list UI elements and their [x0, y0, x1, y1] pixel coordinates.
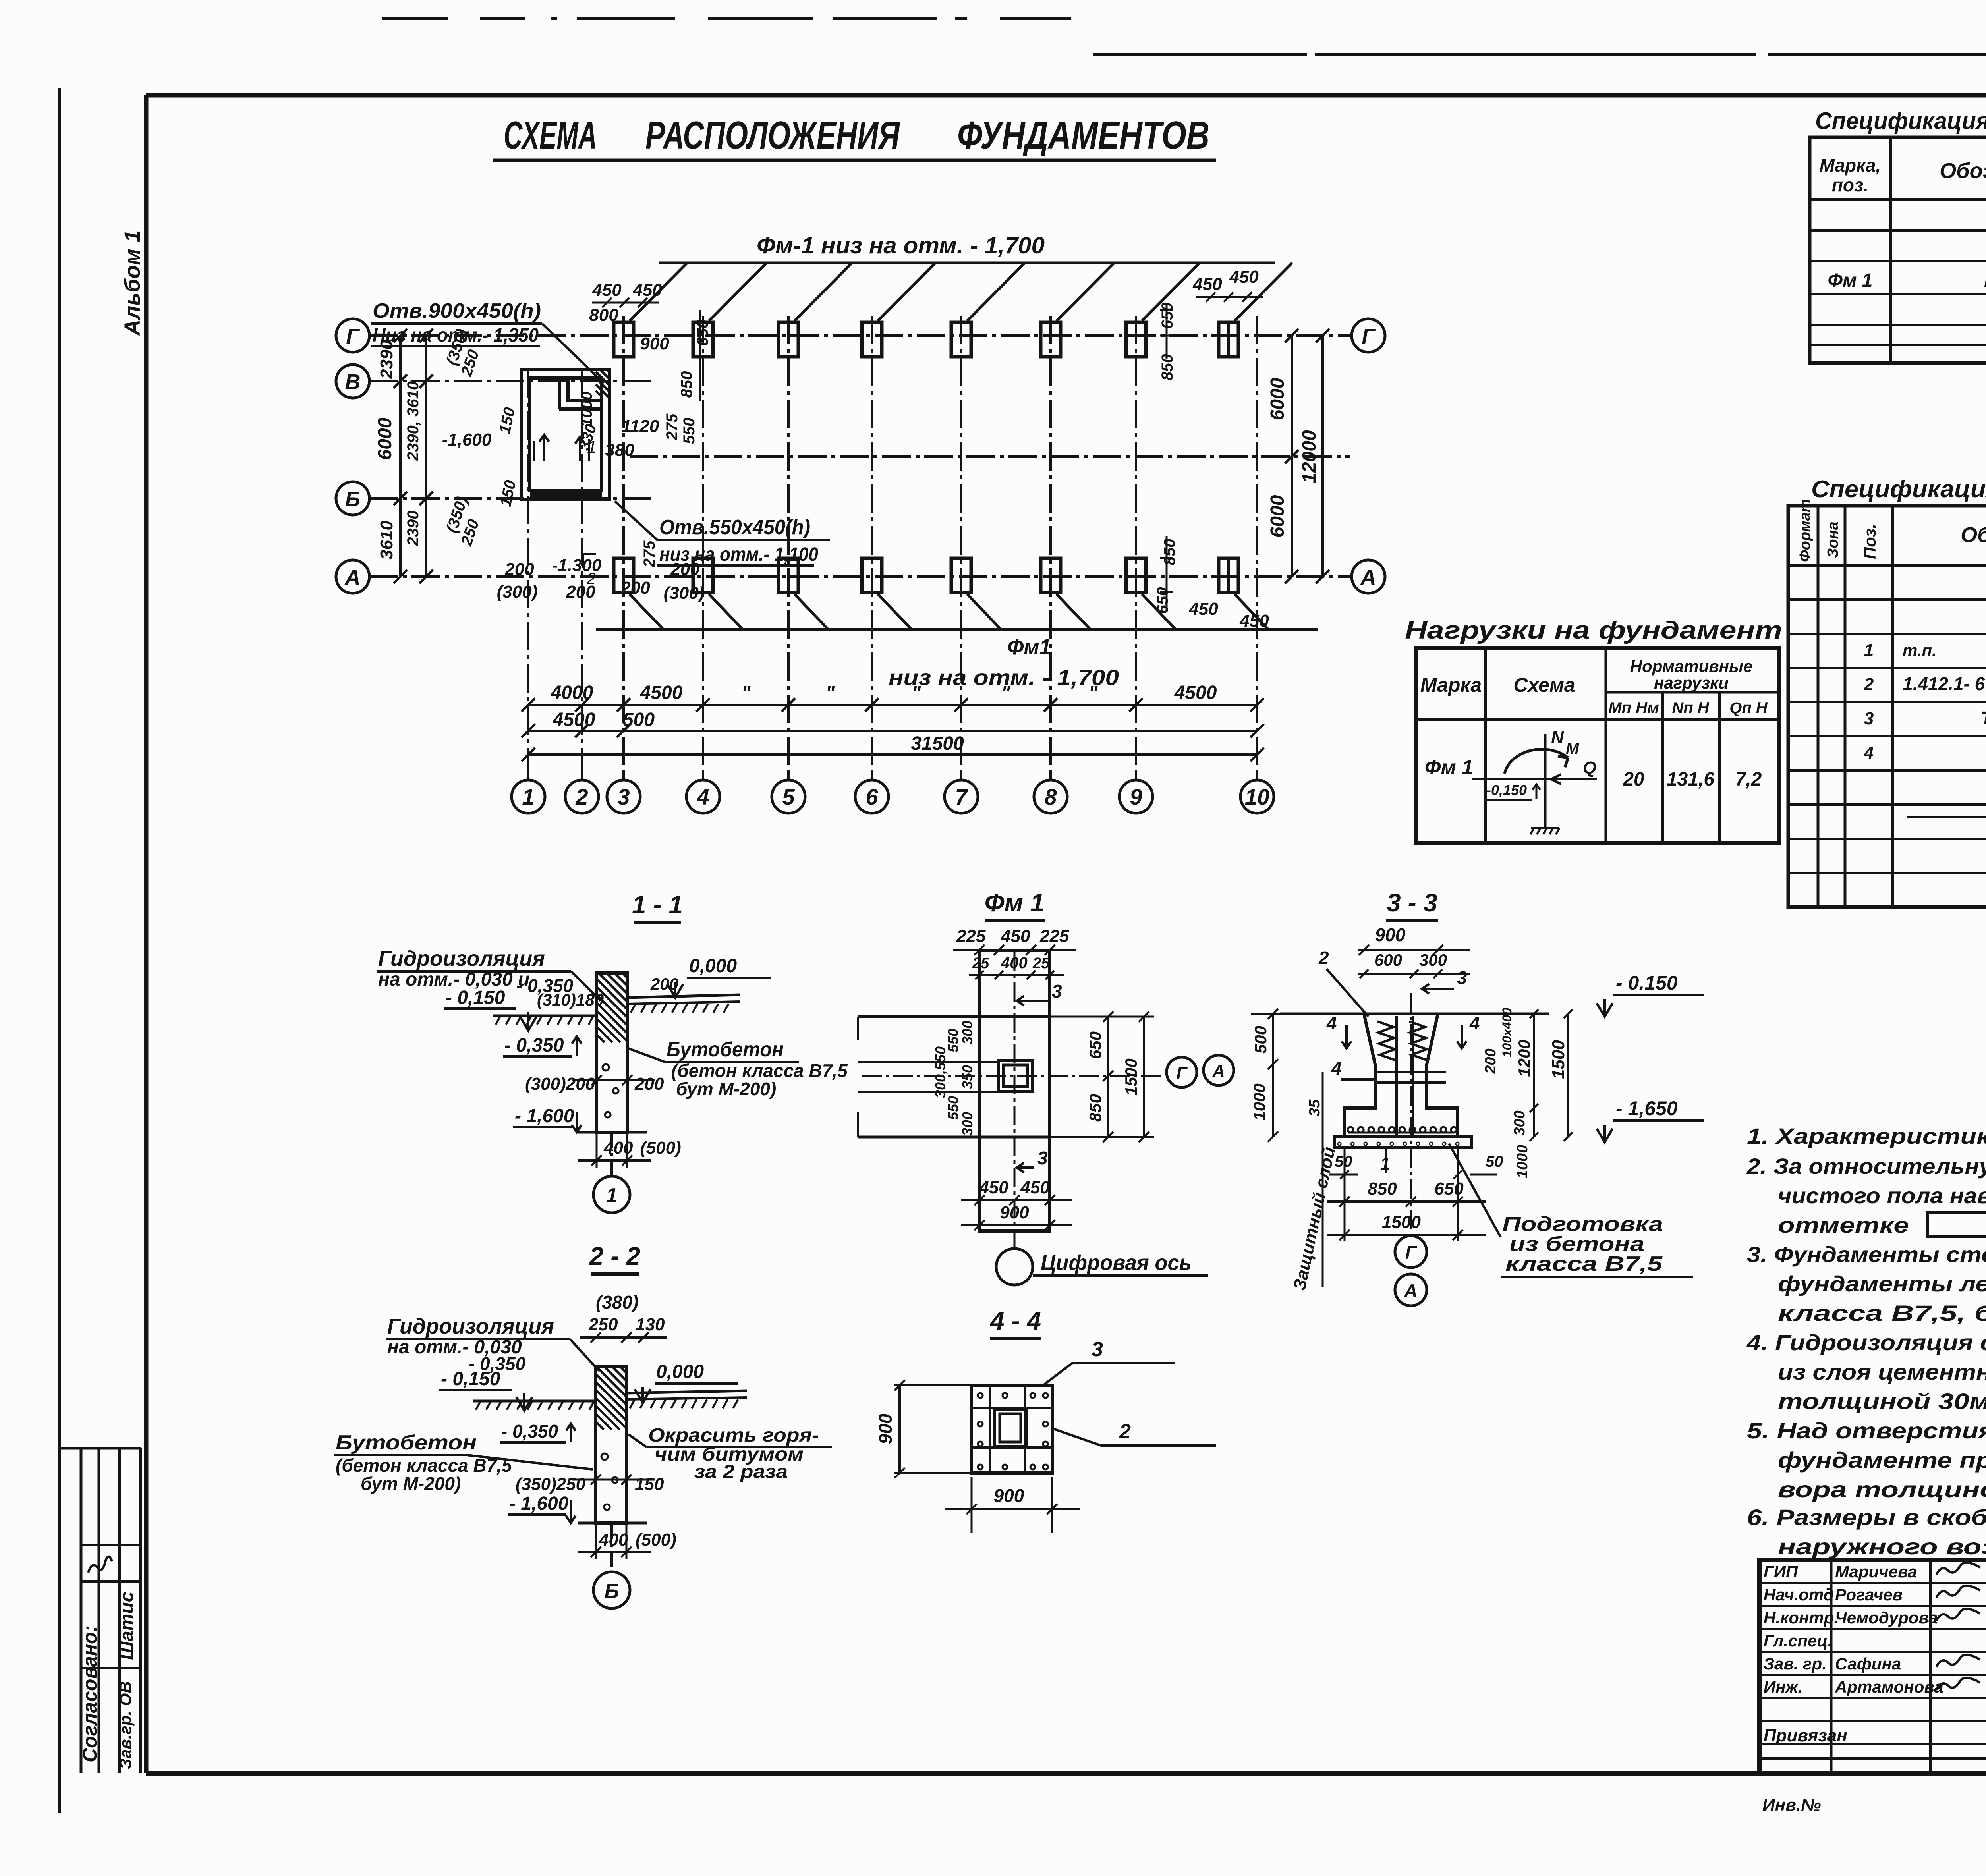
svg-text:450: 450	[979, 1178, 1008, 1197]
svg-text:фундаменты ленточные - бутобе: фундаменты ленточные - бутобетонные ( бе…	[1778, 1271, 1986, 1296]
svg-text:3: 3	[1092, 1338, 1103, 1361]
svg-text:10: 10	[1245, 784, 1269, 809]
svg-text:Инж.: Инж.	[1764, 1677, 1802, 1696]
detail Фм1 digital axis circle	[996, 1249, 1033, 1285]
svg-text:Б: Б	[605, 1580, 619, 1603]
detail Фм1 horizontal strip lines	[858, 1015, 979, 1018]
svg-text:В: В	[345, 370, 361, 394]
opening detail in building top	[558, 378, 561, 409]
svg-text:- 0,150: - 0,150	[441, 1368, 500, 1390]
svg-text:150: 150	[496, 406, 519, 435]
svg-text:3610: 3610	[377, 521, 396, 560]
svg-text:2: 2	[575, 784, 588, 809]
svg-text:130: 130	[636, 1315, 665, 1334]
svg-text:КЖ- 2: КЖ- 2	[1984, 270, 1986, 291]
stair arrows in building	[534, 435, 549, 461]
svg-text:2390: 2390	[404, 511, 422, 546]
section 3-3 mid band bars	[1375, 1071, 1446, 1073]
svg-text:225: 225	[1039, 926, 1069, 946]
svg-text:1: 1	[1380, 1154, 1390, 1173]
svg-text:То же: То же	[1981, 708, 1986, 728]
svg-text:Б: Б	[345, 487, 360, 511]
svg-text:т.п.: т.п.	[1903, 641, 1937, 660]
svg-text:3: 3	[1037, 1148, 1048, 1168]
svg-text:5: 5	[782, 784, 795, 809]
svg-text:20: 20	[1623, 769, 1644, 790]
svg-text:Нагрузки на фундамент: Нагрузки на фундамент	[1405, 617, 1782, 644]
svg-text:Зона: Зона	[1825, 521, 1841, 558]
left dim line 1	[399, 336, 402, 577]
svg-text:300,550: 300,550	[932, 1046, 949, 1098]
svg-text:850: 850	[678, 371, 695, 398]
svg-text:4 - 4: 4 - 4	[989, 1307, 1041, 1335]
section 3-3 center axis	[1410, 993, 1412, 1230]
axis Б horizontal	[369, 497, 653, 500]
svg-text:200: 200	[670, 560, 700, 579]
svg-text:200: 200	[634, 1074, 664, 1094]
svg-text:25: 25	[1032, 955, 1050, 972]
svg-text:Артамонова: Артамонова	[1835, 1677, 1943, 1696]
right dim line 12000	[1321, 336, 1324, 577]
svg-text:380: 380	[605, 440, 634, 460]
svg-text:Гидроизоляция: Гидроизоляция	[378, 947, 545, 971]
svg-text:из слоя цементного раствора: из слоя цементного раствора состава 1: 2	[1778, 1359, 1986, 1384]
section 3-3 left dims	[1272, 1014, 1274, 1137]
svg-text:600: 600	[1374, 951, 1402, 969]
svg-text:Поз.: Поз.	[1860, 524, 1879, 559]
svg-text:Привязан: Привязан	[1764, 1726, 1847, 1745]
loads sketch moment arc	[1505, 749, 1568, 774]
svg-text:300: 300	[959, 1021, 976, 1044]
section 3-3 stirrup zigzag left	[1377, 1021, 1396, 1060]
svg-text:Марка,: Марка,	[1820, 155, 1881, 176]
svg-text:Сафина: Сафина	[1835, 1654, 1901, 1673]
svg-text:": "	[826, 682, 835, 703]
svg-text:900: 900	[875, 1413, 896, 1444]
section 2-2 axis circle Б	[610, 1523, 613, 1572]
scan fold line above frame right	[1093, 53, 1307, 56]
svg-text:1200: 1200	[1515, 1040, 1534, 1077]
svg-text:Qп Н: Qп Н	[1729, 699, 1768, 717]
section 4-4 rebar dots	[978, 1393, 1048, 1469]
svg-text:200: 200	[504, 560, 534, 579]
dimension line row 3 (31500 overall)	[528, 753, 1257, 756]
svg-text:4000: 4000	[551, 682, 593, 703]
svg-text:- 0,350: - 0,350	[504, 1035, 564, 1056]
svg-text:1: 1	[522, 784, 534, 809]
svg-text:2: 2	[1864, 675, 1874, 694]
svg-text:Nп Н: Nп Н	[1672, 699, 1709, 717]
section 3-3 podgotovka layer	[1335, 1137, 1472, 1148]
svg-text:200: 200	[620, 578, 650, 598]
dimension line row 1 (4000/4500...)	[528, 704, 1257, 706]
svg-text:N: N	[1551, 728, 1564, 747]
svg-text:А: А	[1360, 566, 1376, 589]
svg-text:(300): (300)	[497, 582, 538, 602]
svg-text:-1.300: -1.300	[552, 556, 602, 575]
svg-text:450: 450	[1001, 926, 1030, 946]
section 2-2 ground	[473, 1400, 596, 1403]
svg-text:4500: 4500	[640, 682, 683, 703]
svg-text:Фм 1: Фм 1	[1828, 270, 1872, 291]
column axes vertical	[527, 369, 529, 770]
svg-text:Фм-1 низ на отм. - 1,700: Фм-1 низ на отм. - 1,700	[757, 233, 1045, 259]
svg-text:Защитный слой: Защитный слой	[1290, 1145, 1339, 1292]
section 1-1 wall	[597, 973, 627, 1132]
svg-text:350: 350	[959, 1065, 976, 1089]
axis В horizontal	[369, 380, 653, 382]
svg-text:(300)200: (300)200	[525, 1074, 595, 1094]
svg-text:500: 500	[1251, 1026, 1270, 1054]
svg-text:4500: 4500	[1174, 682, 1217, 703]
column number circles	[512, 780, 545, 813]
svg-text:бут М-200): бут М-200)	[676, 1079, 776, 1099]
svg-text:500: 500	[623, 709, 655, 730]
svg-text:6: 6	[865, 784, 878, 809]
approval table bottom-left	[60, 1447, 141, 1450]
svg-text:3: 3	[617, 784, 630, 809]
loads sketch ground	[1531, 827, 1559, 829]
svg-text:Н.контр.: Н.контр.	[1764, 1608, 1839, 1627]
svg-text:4: 4	[1469, 1013, 1480, 1033]
svg-text:M: M	[1566, 740, 1580, 757]
svg-text:": "	[1001, 682, 1011, 703]
svg-text:Согласовано:: Согласовано:	[79, 1625, 101, 1762]
svg-text:нагрузки: нагрузки	[1654, 674, 1729, 692]
svg-text:3: 3	[1052, 981, 1062, 1002]
svg-text:450: 450	[632, 280, 662, 300]
foundation marks Фм1 on axis Г	[614, 322, 634, 357]
detail Фм1 center hole double square	[998, 1060, 1033, 1091]
svg-text:4. Гидроизоляция стен на отм: 4. Гидроизоляция стен на отм.- 0,030 и -…	[1746, 1330, 1986, 1355]
svg-text:650: 650	[694, 320, 711, 346]
svg-text:(500): (500)	[636, 1530, 676, 1550]
svg-text:300: 300	[959, 1112, 976, 1136]
svg-text:1500: 1500	[1382, 1212, 1421, 1232]
svg-text:Бутобетон: Бутобетон	[667, 1038, 784, 1061]
svg-text:4500: 4500	[553, 709, 595, 730]
svg-text:": "	[912, 682, 922, 703]
svg-text:(бетон класса В7,5: (бетон класса В7,5	[336, 1455, 512, 1476]
loads table frame	[1416, 648, 1779, 843]
svg-text:Зав.гр. ОВ: Зав.гр. ОВ	[116, 1681, 135, 1769]
svg-text:450: 450	[1239, 611, 1269, 631]
detail Фм1 circles Г А	[1167, 1057, 1197, 1087]
svg-text:наружного воздуха - 40°С.: наружного воздуха - 40°С.	[1778, 1534, 1986, 1559]
svg-text:Фм 1: Фм 1	[985, 888, 1045, 917]
svg-text:4: 4	[1864, 743, 1874, 762]
svg-text:150: 150	[635, 1475, 664, 1494]
svg-text:Фм 1: Фм 1	[1425, 756, 1473, 779]
loads sketch Q arrow	[1472, 778, 1597, 780]
svg-text:поз.: поз.	[1832, 175, 1868, 195]
svg-text:3 - 3: 3 - 3	[1387, 888, 1437, 917]
svg-text:550: 550	[680, 418, 698, 444]
svg-text:100х400: 100х400	[1500, 1008, 1514, 1058]
svg-text:- 1,600: - 1,600	[515, 1106, 574, 1127]
svg-text:2: 2	[1119, 1420, 1131, 1443]
svg-text:12000: 12000	[1299, 430, 1320, 483]
small dim ticks near squares	[602, 298, 612, 307]
svg-text:Обозначение: Обозначение	[1940, 159, 1986, 183]
left dim line 2	[425, 336, 427, 577]
thick bottom wall	[530, 492, 602, 498]
svg-text:Схема: Схема	[1513, 674, 1575, 696]
svg-text:Нормативные: Нормативные	[1630, 657, 1752, 676]
svg-text:200: 200	[650, 975, 678, 993]
svg-text:131,6: 131,6	[1667, 769, 1714, 790]
approval signature	[88, 1556, 112, 1573]
svg-text:Гл.спец.: Гл.спец.	[1764, 1631, 1832, 1650]
svg-text:200: 200	[1482, 1048, 1499, 1074]
svg-text:450: 450	[1188, 599, 1218, 619]
section 3-3 foundation profile	[1345, 1014, 1458, 1137]
svg-text:ГИП: ГИП	[1764, 1562, 1798, 1581]
svg-text:Гидроизоляция: Гидроизоляция	[387, 1314, 554, 1338]
svg-text:ФУНДАМЕНТОВ: ФУНДАМЕНТОВ	[957, 113, 1209, 157]
svg-text:(350)250: (350)250	[516, 1475, 586, 1494]
svg-text:Зав. гр.: Зав. гр.	[1764, 1654, 1827, 1673]
section 3-3 bottom circles	[1395, 1236, 1427, 1268]
foundation marks Фм1 on axis А	[614, 558, 634, 593]
svg-text:2: 2	[1318, 948, 1329, 968]
svg-text:Мп Нм: Мп Нм	[1608, 699, 1659, 717]
pump room building walls	[521, 369, 610, 500]
right dim line 6000+6000	[1291, 336, 1293, 577]
svg-text:800: 800	[589, 305, 618, 325]
svg-text:отметке: отметке	[1778, 1212, 1909, 1237]
svg-text:900: 900	[1000, 1203, 1029, 1222]
leader line Фм1 низ на отм.-1,700 (bottom)	[596, 628, 1318, 631]
section 2-2 footing bottom	[578, 1522, 647, 1525]
section 3-3 bottom mesh dots	[1348, 1127, 1457, 1133]
svg-text:6000: 6000	[1267, 378, 1288, 420]
svg-text:2. За относительную отметку: 2. За относительную отметку 0,000 условн…	[1746, 1154, 1986, 1179]
svg-text:450: 450	[1020, 1178, 1050, 1197]
svg-text:35: 35	[1306, 1099, 1323, 1116]
svg-text:Спецификация к схеме расположе: Спецификация к схеме расположения фундам…	[1815, 108, 1986, 134]
svg-text:4: 4	[1331, 1058, 1342, 1079]
svg-text:Г: Г	[1405, 1242, 1417, 1263]
svg-text:3: 3	[1864, 709, 1874, 728]
svg-text:9: 9	[1130, 784, 1142, 809]
svg-text:чистого пола навеса, что со: чистого пола навеса, что соответствует а…	[1778, 1183, 1986, 1208]
svg-text:Маричева: Маричева	[1835, 1562, 1917, 1581]
svg-text:7: 7	[955, 784, 968, 809]
svg-text:- 0,350: - 0,350	[501, 1421, 558, 1442]
svg-text:450: 450	[1229, 267, 1259, 287]
svg-text:Отв.900х450(h): Отв.900х450(h)	[373, 299, 541, 322]
svg-text:900: 900	[994, 1485, 1024, 1506]
svg-text:(310)180: (310)180	[537, 990, 604, 1009]
svg-text:0,000: 0,000	[656, 1361, 704, 1382]
section 1-1 ground left	[493, 1015, 597, 1017]
svg-text:900: 900	[640, 334, 669, 353]
svg-text:класса В7,5: класса В7,5	[1505, 1253, 1663, 1276]
svg-text:Бутобетон: Бутобетон	[336, 1431, 477, 1454]
svg-text:": "	[742, 682, 751, 703]
svg-text:300: 300	[1511, 1110, 1528, 1135]
spec table 2 frame	[1788, 506, 1986, 907]
svg-text:-0,150: -0,150	[1486, 782, 1527, 798]
svg-text:1 - 1: 1 - 1	[632, 890, 683, 919]
svg-text:31500: 31500	[911, 733, 964, 754]
svg-text:7,2: 7,2	[1735, 769, 1762, 790]
svg-text:Г: Г	[1176, 1063, 1188, 1083]
svg-text:А: А	[1212, 1062, 1225, 1081]
svg-text:Альбом 1: Альбом 1	[120, 230, 145, 336]
svg-text:250: 250	[588, 1315, 618, 1334]
grid circles letters right	[1352, 319, 1385, 352]
scan artifact dashes top	[382, 17, 448, 20]
sheet left trim line	[58, 88, 61, 1813]
svg-text:1. Характеристику грунтов см: 1. Характеристику грунтов см. КЖ- 1.	[1747, 1123, 1986, 1148]
section 4-4 left dim 900	[898, 1385, 901, 1473]
dimension line row 2 (4500/500/31500)	[528, 730, 1257, 732]
svg-text:450: 450	[1192, 274, 1222, 294]
svg-text:2 - 2: 2 - 2	[589, 1242, 640, 1270]
svg-text:- 0.150: - 0.150	[1616, 972, 1678, 994]
svg-text:4: 4	[696, 784, 709, 809]
svg-text:850: 850	[1086, 1094, 1105, 1122]
svg-text:Нач.отд: Нач.отд	[1764, 1585, 1834, 1604]
spec table 2 ditto line	[1907, 816, 1986, 818]
section 1-1 axis circle 1	[610, 1132, 613, 1176]
svg-text:650: 650	[1086, 1031, 1105, 1059]
svg-text:850: 850	[1161, 539, 1178, 566]
title block personnel columns	[1830, 1560, 1833, 1773]
svg-text:275: 275	[641, 540, 658, 567]
loads sketch column	[1544, 734, 1547, 828]
svg-text:400: 400	[603, 1138, 633, 1158]
section 3-3 inner shaft lines	[1395, 1016, 1398, 1135]
svg-text:900: 900	[1375, 924, 1406, 945]
empty elevation box in note 2	[1928, 1213, 1986, 1237]
section 1-1 floor right	[627, 995, 740, 998]
svg-text:толщиной 30мм.: толщиной 30мм.	[1778, 1389, 1986, 1414]
svg-text:1: 1	[1864, 641, 1874, 660]
title block outer	[1760, 1560, 1986, 1773]
svg-text:1000: 1000	[578, 392, 595, 427]
svg-text:150: 150	[497, 479, 520, 508]
svg-text:1120: 1120	[622, 417, 659, 436]
svg-text:3: 3	[1457, 967, 1467, 988]
svg-text:550: 550	[945, 1096, 961, 1120]
svg-text:275: 275	[663, 413, 681, 440]
svg-text:50: 50	[1486, 1153, 1503, 1170]
svg-text:Фм1: Фм1	[1007, 634, 1051, 659]
section 4-4 square plan	[972, 1385, 1052, 1473]
svg-text:650: 650	[1434, 1179, 1464, 1199]
svg-text:Обозначение: Обозначение	[1961, 523, 1986, 547]
svg-text:400: 400	[599, 1530, 628, 1550]
extra inner line col10 top square	[1227, 322, 1230, 357]
svg-text:0,000: 0,000	[689, 955, 737, 977]
svg-text:Цифровая ось: Цифровая ось	[1041, 1251, 1192, 1275]
svg-text:50: 50	[1335, 1153, 1352, 1170]
svg-text:за 2 раза: за 2 раза	[694, 1461, 788, 1482]
svg-text:(380): (380)	[596, 1292, 638, 1312]
svg-text:225: 225	[956, 926, 986, 946]
svg-text:Чемодурова: Чемодурова	[1835, 1608, 1938, 1627]
svg-text:5. Над отверстиями шириной: 5. Над отверстиями шириной до 60см в бут…	[1747, 1418, 1986, 1443]
detail Фм1 right dims	[1107, 1017, 1109, 1137]
svg-text:А: А	[1404, 1280, 1417, 1301]
svg-text:Спецификация элементов монолит: Спецификация элементов монолитной констр…	[1811, 476, 1986, 502]
title block personnel rows	[1760, 1582, 1986, 1584]
svg-text:300: 300	[1419, 951, 1447, 969]
svg-text:Формат: Формат	[1797, 499, 1814, 562]
svg-text:СХЕМА: СХЕМА	[504, 113, 597, 157]
svg-text:Г: Г	[1362, 324, 1376, 348]
svg-text:6000: 6000	[1267, 495, 1288, 537]
svg-text:А: А	[344, 566, 361, 589]
svg-text:450: 450	[592, 280, 622, 300]
svg-text:1: 1	[606, 1184, 618, 1207]
rubble texture dots	[603, 1064, 618, 1117]
svg-text:Марка: Марка	[1420, 674, 1482, 696]
svg-text:(500): (500)	[640, 1138, 681, 1158]
svg-text:1500: 1500	[1122, 1058, 1140, 1095]
section 3-3 top surface line	[1280, 1013, 1549, 1015]
svg-text:(бетон класса В7,5: (бетон класса В7,5	[671, 1060, 848, 1081]
svg-text:6000: 6000	[375, 417, 396, 460]
svg-text:850: 850	[1368, 1179, 1397, 1199]
svg-text:бут М-200): бут М-200)	[361, 1473, 461, 1494]
svg-text:200: 200	[566, 582, 595, 602]
svg-text:Шатис: Шатис	[116, 1592, 137, 1660]
svg-text:2390, 3610: 2390, 3610	[404, 381, 422, 461]
svg-text:Инв.№: Инв.№	[1762, 1795, 1821, 1815]
leader line Фм-1 низ на отм.-1,700 (top)	[659, 262, 1275, 264]
svg-text:РАСПОЛОЖЕНИЯ: РАСПОЛОЖЕНИЯ	[645, 113, 900, 157]
svg-text:2390: 2390	[377, 340, 396, 379]
svg-text:6. Размеры в скобках ( ) д: 6. Размеры в скобках ( ) даны для темпер…	[1747, 1505, 1986, 1530]
spec table 1 frame	[1810, 137, 1986, 363]
central axis horizontal	[630, 455, 1350, 458]
svg-text:8: 8	[1044, 784, 1057, 809]
svg-text:Окрасить горя-: Окрасить горя-	[648, 1425, 819, 1446]
svg-text:Отв.550х450(h): Отв.550х450(h)	[659, 516, 810, 539]
svg-text:вора толщиной 30мм арматуру: вора толщиной 30мм арматуру 4ф 12АI l=13…	[1778, 1477, 1986, 1502]
svg-text:3. Фундаменты столбчатые Фм: 3. Фундаменты столбчатые Фм 1 из бетона …	[1747, 1242, 1986, 1267]
axis Г horizontal	[369, 334, 1350, 337]
section 4-4 center double square	[995, 1409, 1026, 1447]
svg-text:1500: 1500	[1549, 1040, 1568, 1079]
section 2-2 wall	[596, 1366, 626, 1523]
svg-text:-1,600: -1,600	[442, 430, 492, 450]
svg-text:4: 4	[1326, 1013, 1337, 1033]
drawing frame border	[146, 93, 1986, 98]
grid circles letters left	[336, 319, 369, 352]
svg-text:- 0,150: - 0,150	[446, 987, 505, 1008]
detail Фм1 vertical strip	[979, 951, 1050, 1231]
section 4-4 bottom dim 900	[945, 1508, 1080, 1510]
svg-text:класса В7,5, бут марки 200: класса В7,5, бут марки 200).	[1778, 1301, 1986, 1326]
svg-text:1000: 1000	[1514, 1145, 1531, 1179]
svg-text:1000: 1000	[1250, 1083, 1269, 1120]
svg-text:фундаменте проложить в слое: фундаменте проложить в слое цементного р…	[1778, 1448, 1986, 1473]
personnel signatures	[1936, 1563, 1980, 1575]
section 1-1 footing bottom	[578, 1131, 647, 1134]
svg-text:Q: Q	[1583, 758, 1596, 778]
svg-text:- 1,600: - 1,600	[509, 1493, 569, 1514]
detail Фм1 axes dash-dot	[862, 1075, 1164, 1077]
svg-text:Рогачев: Рогачев	[1835, 1585, 1903, 1604]
svg-text:1.412.1- 6;: 1.412.1- 6;	[1903, 674, 1986, 694]
svg-text:": "	[1089, 682, 1098, 703]
extension verticals to circles	[527, 770, 529, 780]
